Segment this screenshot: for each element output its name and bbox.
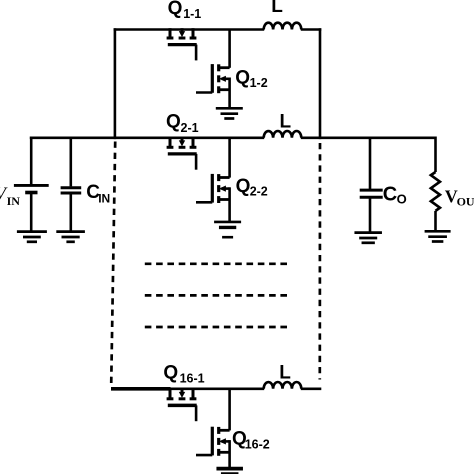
- svg-text:Q: Q: [168, 0, 183, 19]
- svg-text:16-1: 16-1: [180, 372, 205, 386]
- wire phase-1 left drop to input bus: [114, 28, 117, 139]
- dashed line right edge of repeated-phase box: [318, 143, 321, 380]
- wire phase-1 output drop: [319, 28, 322, 139]
- svg-text:Q: Q: [236, 176, 251, 197]
- label Q2-2: [236, 176, 268, 199]
- svg-text:2-1: 2-1: [181, 121, 199, 135]
- ground of VIN: [17, 232, 47, 242]
- inductor L (phase 16): [264, 382, 302, 389]
- battery VIN positive lead: [30, 137, 33, 186]
- label L (phase 2): [280, 111, 292, 132]
- svg-text:1-2: 1-2: [250, 76, 268, 90]
- svg-text:IN: IN: [98, 192, 110, 206]
- transistor Q16-2 (low-side NMOS): [196, 388, 230, 468]
- capacitor CIN bottom lead: [70, 193, 73, 232]
- battery VIN short plate: [25, 191, 37, 195]
- wire phase-16 bus: [169, 387, 264, 390]
- label CO: [383, 183, 407, 206]
- label Q16-1: [163, 363, 204, 386]
- capacitor CO top lead: [369, 137, 372, 191]
- capacitor CIN top lead: [70, 137, 73, 187]
- transistor Q2-2 (low-side NMOS): [196, 137, 230, 222]
- svg-text:Q: Q: [235, 67, 250, 88]
- label VIN: [0, 183, 20, 208]
- svg-text:1-1: 1-1: [183, 7, 201, 21]
- label Q1-2: [235, 67, 268, 90]
- label L (phase 16): [279, 363, 291, 384]
- svg-text:O: O: [397, 191, 407, 206]
- svg-text:L: L: [280, 111, 292, 132]
- capacitor CIN bottom plate: [61, 192, 82, 195]
- capacitor CIN top plate: [61, 186, 82, 189]
- ground of CO: [354, 233, 382, 243]
- transistor Q16-1 (high-side NMOS): [167, 388, 197, 422]
- transistor Q1-1 (high-side NMOS): [167, 28, 197, 60]
- capacitor CO top plate: [360, 189, 383, 192]
- transistor Q1-2 (low-side NMOS): [196, 29, 230, 109]
- label CIN: [86, 182, 110, 205]
- svg-text:16-2: 16-2: [245, 438, 270, 452]
- battery VIN negative lead: [30, 193, 33, 232]
- label VOUT: [445, 186, 474, 208]
- wire phase-1 inductor to output rail: [301, 28, 322, 31]
- wire output bus: [301, 137, 436, 140]
- label Q16-2: [232, 428, 270, 451]
- ground of Q16-2 source: [216, 469, 243, 474]
- resistor load RL zigzag: [431, 172, 440, 211]
- battery VIN long plate: [14, 184, 49, 187]
- transistor Q2-1 (high-side NMOS): [167, 137, 197, 170]
- svg-text:Q: Q: [166, 111, 181, 132]
- resistor load bottom lead: [434, 211, 437, 232]
- ground of load: [425, 231, 451, 241]
- ground of Q2-2 source: [214, 222, 241, 237]
- svg-text:L: L: [279, 363, 291, 384]
- wire phase-1 top rail left segment: [114, 28, 265, 31]
- wire phase-16 input bus (thick stub): [111, 387, 171, 391]
- svg-text:L: L: [271, 0, 283, 17]
- resistor load lead from output bus: [434, 137, 437, 173]
- dashed continuation line 3: [145, 326, 289, 329]
- wire input bus: [30, 137, 264, 140]
- ground of Q1-2 source: [216, 108, 243, 118]
- inductor L (phase 1): [264, 23, 302, 30]
- label Q1-1: [168, 0, 202, 21]
- dashed continuation line 1: [145, 262, 289, 265]
- svg-text:2-2: 2-2: [250, 185, 268, 199]
- svg-text:OUT: OUT: [457, 195, 474, 209]
- capacitor CO bottom lead: [369, 197, 372, 232]
- dashed line left edge of repeated-phase box: [111, 142, 115, 386]
- label Q2-1: [166, 111, 199, 135]
- dashed continuation line 2: [145, 294, 289, 297]
- svg-text:IN: IN: [7, 194, 21, 208]
- svg-text:C: C: [383, 183, 397, 205]
- label L (phase 1): [271, 0, 283, 17]
- inductor L (phase 2): [264, 131, 302, 138]
- ground of CIN: [56, 232, 85, 242]
- wire phase-16 inductor output stub: [301, 387, 322, 390]
- capacitor CO bottom plate: [360, 196, 383, 199]
- svg-text:Q: Q: [163, 363, 178, 384]
